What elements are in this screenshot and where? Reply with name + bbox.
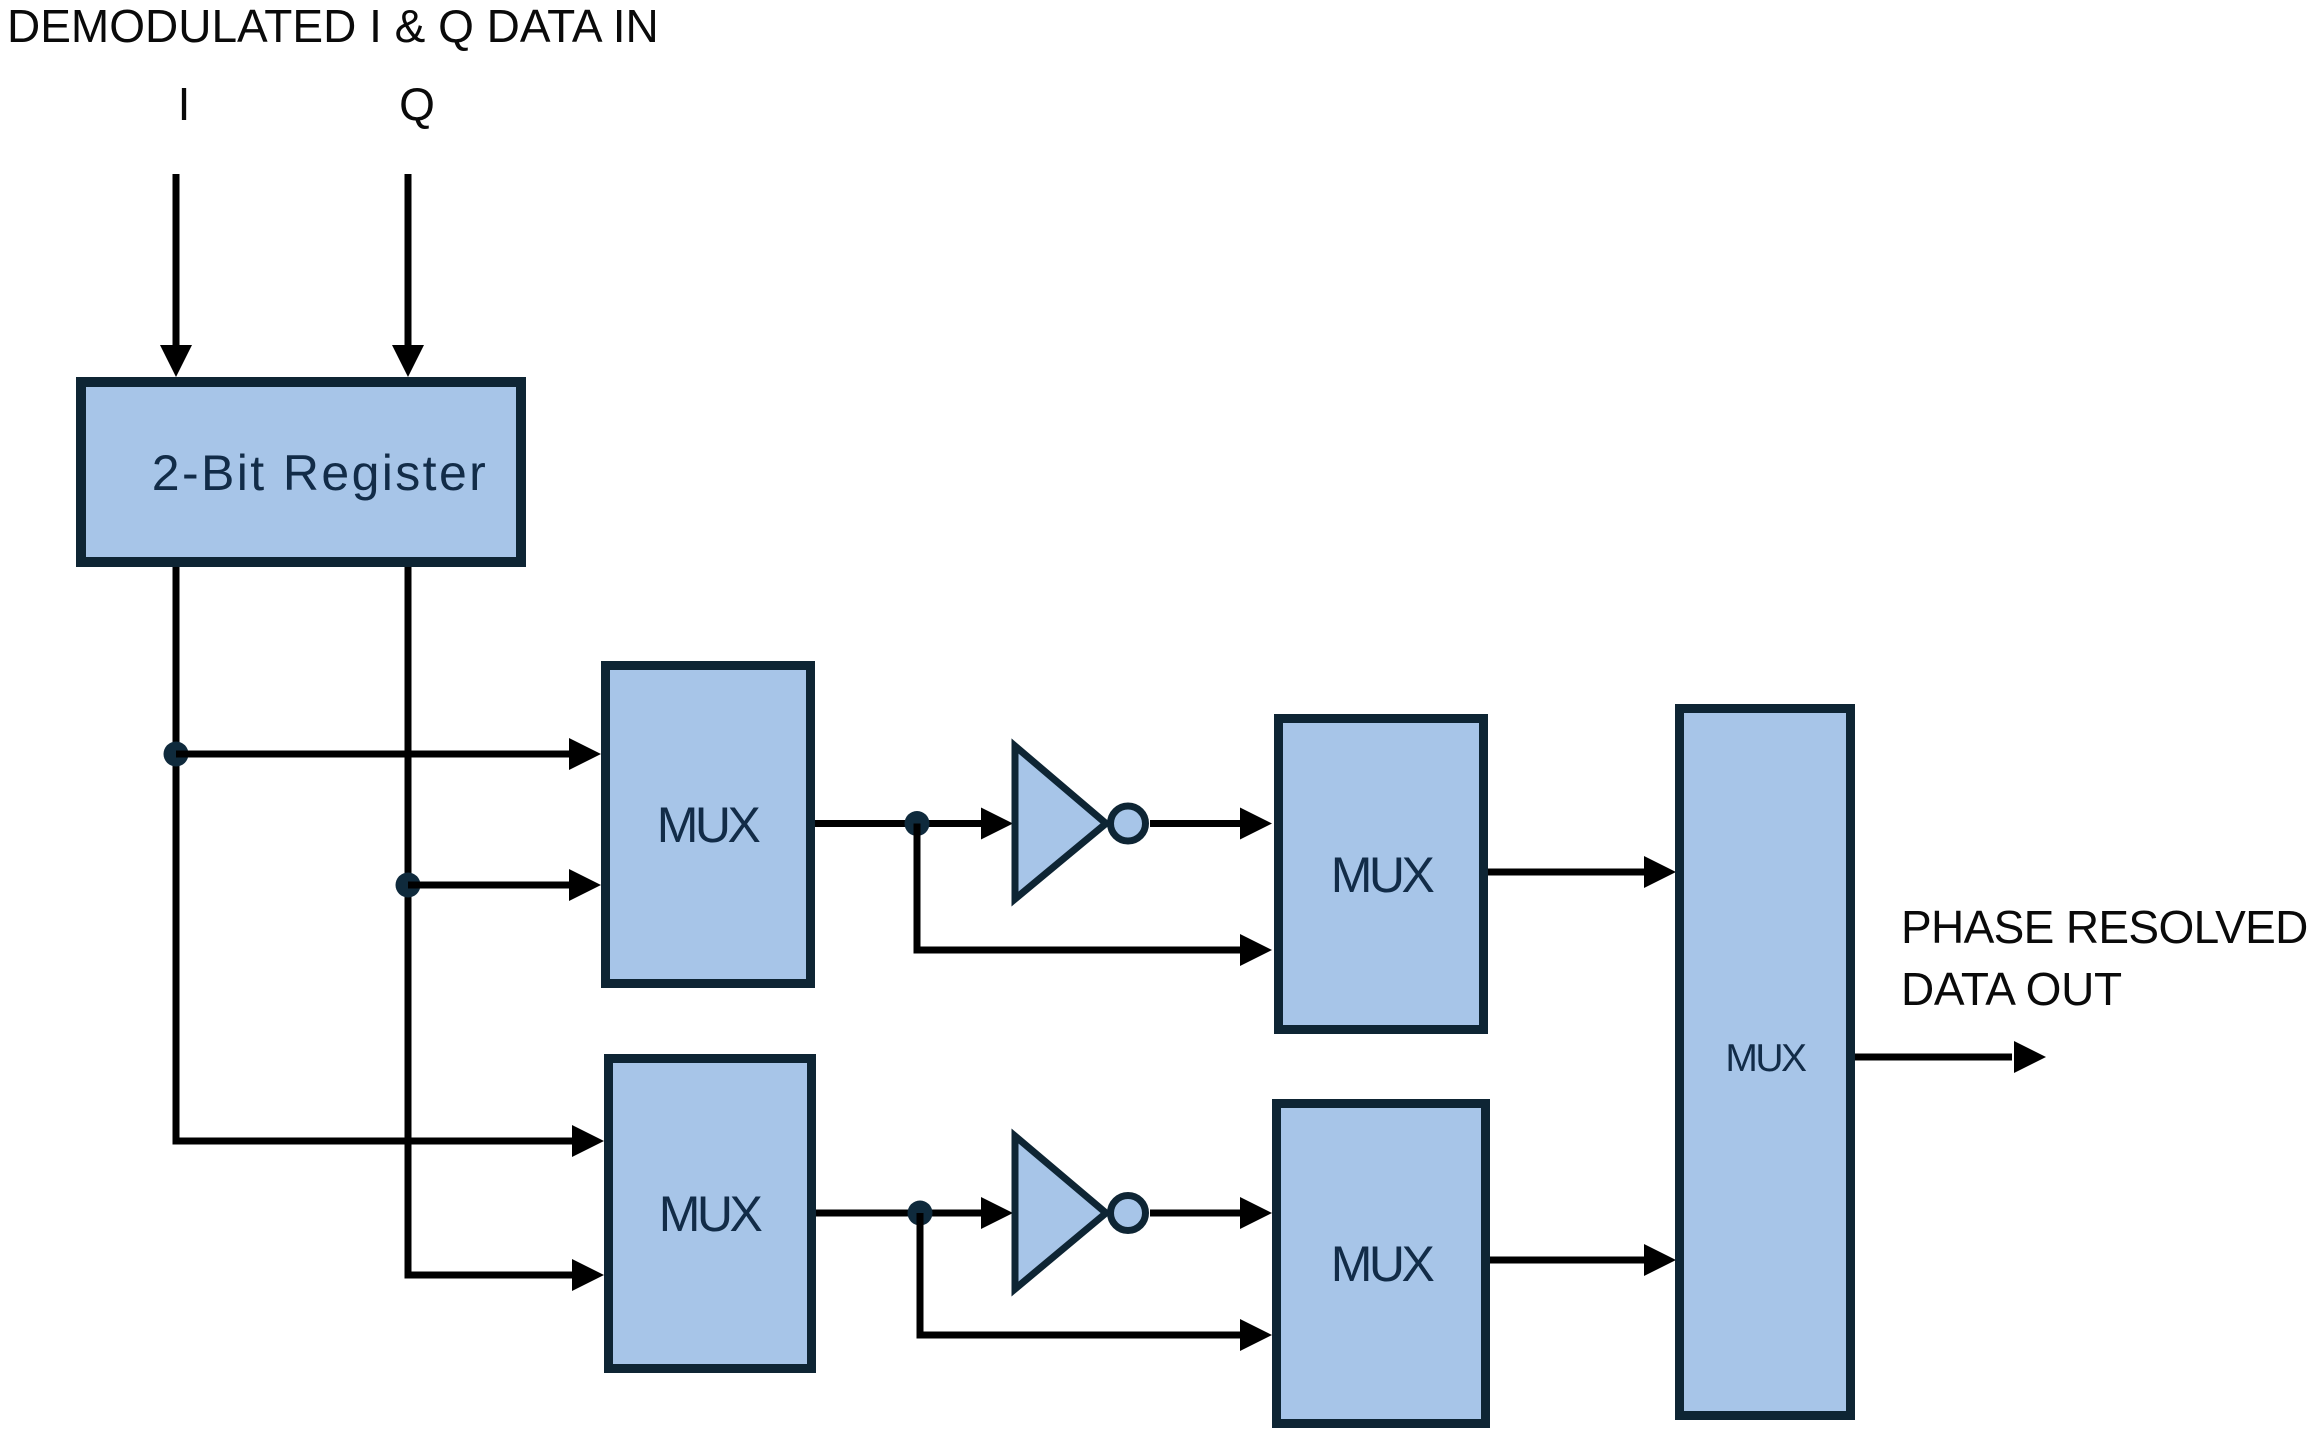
arrowhead into inverter U2 [981,1197,1013,1229]
arrowhead Q into register [392,345,424,377]
inverter U1 triangle [1015,746,1106,899]
block: MUX2 (top-right) [1279,719,1484,1030]
block: MUX4 (bottom-right) [1277,1104,1486,1424]
wire: branch down to MUX2 input 2 [917,824,1241,951]
arrowhead: data out [2014,1041,2046,1073]
inverter U2 triangle [1015,1136,1106,1289]
svg-text:MUX: MUX [1331,847,1435,903]
svg-text:DEMODULATED I & Q DATA IN: DEMODULATED I & Q DATA IN [7,0,659,52]
wire: MUX4 output to MUX5 input 2 [1490,1257,1645,1264]
block: MUX3 (bottom-left) [609,1059,812,1369]
junction after MUX1 [905,811,930,836]
wire: U1 output to MUX2 input 1 [1150,820,1241,827]
svg-text:MUX: MUX [657,797,761,853]
arrowhead into MUX5 input 2 [1644,1244,1676,1276]
arrowhead I into register [160,345,192,377]
svg-text:2-Bit Register: 2-Bit Register [152,445,488,501]
junction on Q leg [396,873,421,898]
junction after MUX3 [908,1201,933,1226]
arrowhead into MUX3 input 1 [572,1125,604,1157]
arrowhead into MUX2 input 2 [1240,934,1272,966]
block: 2-Bit Register [81,382,521,562]
svg-text:DATA OUT: DATA OUT [1901,963,2122,1015]
wire: MUX1 output to inverter U1 [815,820,981,827]
svg-text:MUX: MUX [1725,1037,1807,1080]
wire: I leg from register down and right to MUX3 input 1 [176,567,572,1141]
block: MUX5 (output mux, tall) [1680,709,1851,1416]
inverter U2 bubble [1111,1196,1146,1231]
arrowhead into MUX2 input 1 [1240,808,1272,840]
svg-text:Q: Q [399,78,435,130]
arrowhead into MUX4 input 2 [1240,1319,1272,1351]
arrowhead into MUX1 input 2 [569,869,601,901]
wire: Q leg from register down and right to MUX3 input 2 [408,567,572,1275]
wire: MUX2 output to MUX5 input 1 [1488,869,1645,876]
wire: I input [173,174,180,346]
wire: U2 output to MUX4 input 1 [1150,1210,1241,1217]
wire: MUX3 output to inverter U2 [816,1210,981,1217]
wire: branch down to MUX4 input 2 [920,1213,1241,1335]
svg-text:MUX: MUX [1331,1236,1435,1292]
block: MUX1 (top-left) [606,666,811,984]
svg-text:PHASE RESOLVED: PHASE RESOLVED [1901,901,2308,953]
arrowhead into inverter U1 [981,808,1013,840]
svg-text:MUX: MUX [659,1186,763,1242]
arrowhead into MUX5 input 1 [1644,856,1676,888]
junction on I leg [164,742,189,767]
arrowhead into MUX4 input 1 [1240,1197,1272,1229]
wire: branch to MUX1 input 1 [176,751,570,758]
wire: branch to MUX1 input 2 [408,882,570,889]
arrowhead into MUX1 input 1 [569,738,601,770]
inverter U1 bubble [1111,806,1146,841]
wire: Q input [405,174,412,346]
arrowhead into MUX3 input 2 [572,1259,604,1291]
wire: MUX5 output [1855,1054,2012,1061]
svg-text:I: I [178,78,191,130]
